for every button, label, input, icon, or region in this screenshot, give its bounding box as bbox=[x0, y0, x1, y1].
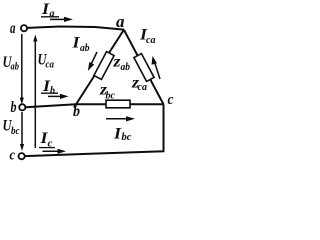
voltage arrow U_bc bbox=[20, 112, 24, 151]
svg-text:bc: bc bbox=[106, 91, 116, 102]
wire phase c bbox=[25, 104, 164, 156]
impedance label z_ab bbox=[112, 54, 130, 74]
node a bbox=[116, 12, 125, 31]
wire side a-b bbox=[74, 30, 124, 108]
voltage label U_ab bbox=[3, 54, 20, 73]
wire side a-c bbox=[124, 30, 164, 104]
svg-text:b: b bbox=[11, 99, 17, 116]
svg-text:a: a bbox=[10, 20, 16, 37]
svg-text:c: c bbox=[168, 92, 174, 108]
terminal label c bbox=[10, 148, 16, 164]
svg-text:b: b bbox=[73, 103, 80, 120]
impedance label z_ca bbox=[131, 75, 147, 94]
current label I_ca bbox=[139, 27, 156, 47]
current label I_ab bbox=[71, 35, 89, 55]
voltage label U_bc bbox=[3, 118, 20, 138]
terminal label b bbox=[11, 99, 17, 116]
current label I_c bbox=[39, 130, 66, 154]
svg-text:b: b bbox=[50, 86, 55, 97]
svg-text:ca: ca bbox=[138, 82, 148, 93]
svg-text:ca: ca bbox=[46, 60, 55, 71]
current label I_bc bbox=[113, 126, 132, 144]
current arrow I_ab bbox=[88, 52, 97, 71]
svg-text:ab: ab bbox=[80, 43, 90, 54]
terminal a bbox=[21, 25, 27, 31]
impedance z_ca bbox=[134, 54, 154, 82]
node c bbox=[168, 92, 174, 108]
voltage label U_ca bbox=[38, 52, 55, 71]
svg-text:ab: ab bbox=[11, 62, 20, 73]
node b bbox=[73, 103, 80, 120]
wire phase b bbox=[26, 104, 76, 107]
svg-text:ca: ca bbox=[146, 35, 156, 46]
voltage arrow U_ca bbox=[33, 35, 37, 149]
wire side b-c bbox=[76, 103, 164, 105]
impedance z_ab bbox=[94, 52, 114, 80]
svg-text:bc: bc bbox=[122, 132, 133, 143]
impedance label z_bc bbox=[99, 82, 116, 102]
svg-text:I: I bbox=[113, 126, 122, 143]
svg-text:c: c bbox=[10, 148, 16, 164]
current arrow I_ca bbox=[152, 56, 161, 79]
impedance z_bc bbox=[106, 100, 130, 108]
svg-text:a: a bbox=[116, 12, 125, 31]
svg-text:I: I bbox=[71, 35, 80, 52]
voltage arrow U_ab bbox=[20, 34, 24, 105]
current label I_a bbox=[41, 1, 73, 22]
terminal b bbox=[19, 104, 25, 110]
svg-text:ab: ab bbox=[121, 62, 131, 73]
wire phase a bbox=[27, 27, 124, 30]
terminal c bbox=[19, 153, 25, 159]
svg-text:bc: bc bbox=[11, 126, 20, 137]
current arrow I_bc bbox=[106, 116, 135, 121]
current label I_b bbox=[41, 78, 69, 99]
svg-text:I: I bbox=[41, 1, 50, 18]
terminal label a bbox=[10, 20, 16, 37]
svg-text:a: a bbox=[50, 9, 55, 20]
